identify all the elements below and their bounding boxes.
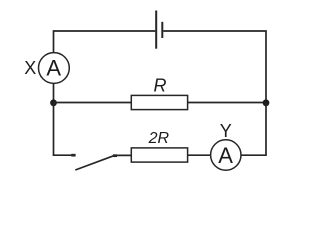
switch left contact <box>71 154 75 157</box>
switch lever (open) <box>75 156 113 170</box>
wire middle branch left (node A to resistor R) <box>54 102 132 104</box>
svg-text:A: A <box>218 143 233 168</box>
wire ammeter Y to right rail (up to node B) <box>241 103 266 156</box>
wire middle branch right (resistor R to node B) <box>188 102 266 104</box>
wire top-right (battery to right rail, down to node B) <box>163 31 266 103</box>
ammeter X (circle with A) <box>39 53 70 84</box>
node B (junction dot, right) <box>263 99 270 106</box>
wire top-left (from ammeter X up and right to battery) <box>54 31 156 52</box>
svg-text:Y: Y <box>220 121 232 141</box>
ammeter Y (circle with A) <box>211 140 241 170</box>
svg-text:R: R <box>154 75 167 95</box>
svg-text:2R: 2R <box>148 130 170 147</box>
resistor 2R <box>131 148 187 162</box>
wire switch to resistor 2R <box>115 154 131 156</box>
wire left rail (ammeter X down to node A) <box>53 84 55 103</box>
battery cell: long plate (left) <box>155 11 157 49</box>
resistor R <box>131 95 187 109</box>
battery cell: short plate (right) <box>161 22 163 38</box>
node A (junction dot, left) <box>50 99 57 106</box>
switch right contact <box>113 154 117 157</box>
svg-text:X: X <box>24 58 36 78</box>
wire left rail lower (node A down to bottom branch) <box>54 103 76 156</box>
svg-text:A: A <box>46 56 61 81</box>
wire resistor 2R to ammeter Y <box>188 154 211 156</box>
